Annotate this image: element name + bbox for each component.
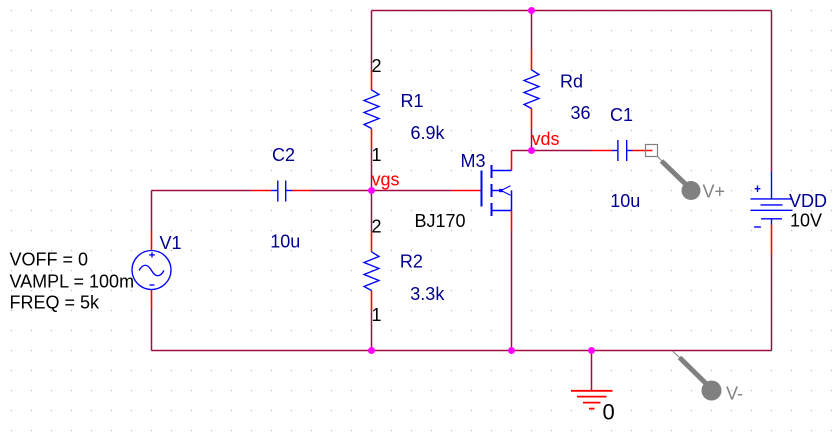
svg-text:Rd: Rd [560, 72, 583, 92]
svg-text:vds: vds [532, 129, 560, 149]
svg-text:10V: 10V [790, 211, 822, 231]
svg-text:VDD: VDD [789, 191, 827, 211]
svg-text:10u: 10u [270, 231, 300, 251]
svg-text:3.3k: 3.3k [410, 284, 445, 304]
svg-text:R1: R1 [401, 91, 424, 111]
svg-text:2: 2 [372, 217, 382, 237]
svg-text:36: 36 [571, 103, 591, 123]
svg-text:C2: C2 [272, 145, 295, 165]
svg-text:6.9k: 6.9k [411, 123, 446, 143]
svg-text:R2: R2 [400, 252, 423, 272]
svg-text:M3: M3 [461, 151, 486, 171]
svg-text:10u: 10u [610, 191, 640, 211]
svg-text:1: 1 [372, 145, 382, 165]
svg-text:FREQ = 5k: FREQ = 5k [10, 293, 101, 313]
svg-text:V1: V1 [160, 233, 182, 253]
svg-text:BJ170: BJ170 [415, 211, 466, 231]
svg-text:C1: C1 [610, 105, 633, 125]
svg-text:VAMPL = 100m: VAMPL = 100m [10, 272, 135, 292]
svg-text:0: 0 [603, 400, 615, 425]
svg-text:1: 1 [372, 305, 382, 325]
svg-text:2: 2 [372, 56, 382, 76]
svg-text:vgs: vgs [372, 170, 400, 190]
svg-text:V+: V+ [703, 182, 726, 202]
svg-text:V-: V- [726, 384, 743, 404]
svg-text:VOFF = 0: VOFF = 0 [10, 250, 89, 270]
